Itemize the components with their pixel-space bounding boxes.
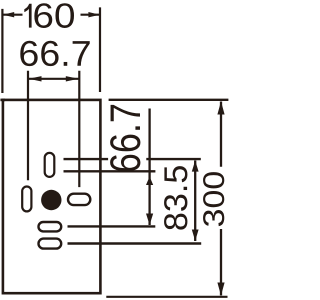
down arrowhead on 66.7 line: [146, 214, 153, 226]
leader from top slot upper center, right piece: [146, 158, 201, 160]
dim 66.7 top line: [28, 78, 79, 80]
plate outline: [3, 100, 101, 293]
up arrowhead on 66.7 line: [146, 177, 153, 186]
dim 66.7 right arrowhead: [66, 76, 79, 81]
dim 160 right extension line: [99, 7, 101, 92]
dim text 66.7 top: [20, 41, 89, 66]
top reference leader (plate top level, extends right): [109, 99, 229, 101]
dim 160 line right segment: [81, 14, 100, 16]
vertical dim line 66.7: [148, 109, 150, 226]
leader from bottom slot 2: [68, 242, 202, 244]
rotated dim text 83.5: [164, 166, 187, 230]
top slot hole: [45, 153, 55, 177]
digit 1 of dim text 160 (custom path, no foot serif): [24, 4, 31, 28]
leader from top slot lower center: [64, 170, 156, 172]
dim 160 right arrowhead: [88, 12, 99, 17]
dim 66.7 top right extension line: [78, 71, 80, 187]
vertical dim line 83.5: [194, 161, 196, 242]
vertical dim line 300 upper segment: [220, 102, 222, 167]
leader from bottom slot 1: [68, 225, 156, 227]
bottom slot hole 1: [39, 222, 62, 231]
middle-right slot hole: [68, 194, 90, 205]
bottom slot hole 2: [39, 239, 62, 249]
leader from top slot upper center: [64, 158, 109, 160]
dim 160 left arrowhead: [3, 12, 14, 17]
dim 160 left extension line: [1, 9, 3, 93]
vertical dim line 300 lower segment: [220, 229, 222, 295]
dim 66.7 left arrowhead: [29, 76, 42, 81]
up arrowhead on 83.5 line: [192, 161, 199, 172]
plate top edge left overshoot: [0, 99, 5, 102]
bottom reference leader: [106, 296, 227, 298]
dim 160 line left segment: [3, 14, 23, 16]
dim text 160: digits 6,0 (1 drawn as path below): [34, 3, 74, 28]
center knockout (filled circle): [41, 190, 61, 210]
dim 66.7 top left extension line: [27, 71, 29, 181]
rotated dim text 300: [203, 172, 224, 226]
down arrowhead on 83.5 line: [192, 230, 199, 242]
down arrowhead on 300 line: [217, 283, 224, 296]
middle-left slot hole: [22, 187, 31, 212]
rotated dim text 66.7: [110, 105, 140, 171]
up arrowhead on 300 line: [217, 101, 224, 114]
